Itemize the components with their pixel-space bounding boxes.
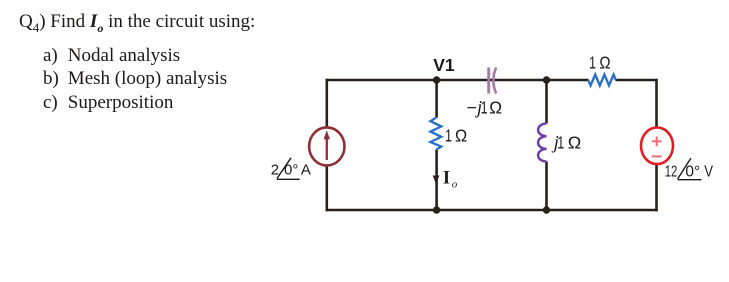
wire bottom: [326, 209, 658, 212]
svg-text:V: V: [704, 163, 713, 180]
label 1 ohm vertical resistor value: [445, 125, 467, 145]
svg-text:12: 12: [665, 163, 678, 180]
current source arrow: [324, 130, 330, 160]
wire right upper: [655, 79, 658, 128]
label 2 angle 0 A source value: [271, 162, 311, 179]
svg-text:Ω: Ω: [455, 125, 467, 145]
svg-text:A: A: [301, 162, 311, 179]
node V1 junction dot: [433, 76, 440, 83]
title text: [19, 11, 255, 35]
angle symbol for 12V source: [678, 158, 702, 180]
label 12 angle 0 V source value: [665, 163, 714, 180]
svg-text:I: I: [443, 169, 450, 189]
wire right lower: [655, 164, 658, 211]
resistor R1 vertical zigzag: [430, 117, 441, 149]
label -j1 ohm capacitor value: [467, 97, 503, 118]
svg-text:1: 1: [445, 125, 452, 145]
inductor L1 coil: [538, 124, 546, 162]
capacitor C1 right curved plate: [493, 68, 496, 94]
node top-right junction dot: [543, 76, 550, 83]
resistor R2 horizontal zigzag: [588, 75, 616, 86]
svg-text:−: −: [467, 97, 477, 117]
list a b c: [43, 44, 227, 115]
wire top left segment: [326, 79, 589, 82]
current source I1 circle: [309, 127, 344, 165]
Io arrowhead on branch: [433, 176, 440, 184]
svg-text:0°: 0°: [685, 163, 700, 180]
node bottom junction dot 2: [543, 206, 550, 213]
wire top right segment: [616, 79, 657, 82]
svg-text:V1: V1: [433, 55, 455, 75]
voltage source V circle: [641, 128, 673, 165]
svg-text:1: 1: [557, 132, 564, 152]
svg-text:o: o: [452, 179, 458, 191]
svg-text:Ω: Ω: [599, 53, 610, 73]
wire left lower: [325, 165, 328, 211]
capacitor C1 left plate: [487, 68, 490, 94]
angle symbol for 2A source: [277, 158, 300, 180]
node bottom junction dot 1: [433, 206, 440, 213]
label 1 ohm top resistor value: [589, 53, 611, 73]
label j1 ohm inductor value: [551, 132, 582, 153]
svg-text:1: 1: [589, 53, 596, 73]
voltage source plus sign: [652, 136, 662, 146]
svg-text:Ω: Ω: [489, 97, 502, 117]
wire branch L lower: [545, 162, 548, 211]
svg-text:1: 1: [481, 97, 488, 117]
wire branch V1 upper: [435, 80, 438, 118]
svg-text:Ω: Ω: [568, 132, 582, 152]
wire branch L upper: [545, 80, 548, 124]
voltage source minus sign: [652, 155, 662, 157]
wire left upper: [325, 79, 328, 128]
wire branch V1 lower: [435, 150, 438, 211]
